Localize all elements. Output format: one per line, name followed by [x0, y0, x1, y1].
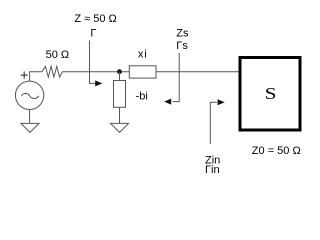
wire: source bottom to ground: [29, 110, 31, 124]
wire: resistor to series element: [63, 71, 130, 73]
node junction dot: [117, 69, 122, 74]
shunt element -bi (rectangle): [114, 81, 126, 108]
svg-text:Γ: Γ: [90, 28, 96, 40]
wire: shunt element to ground: [119, 107, 121, 123]
two-port network block S: [240, 58, 300, 131]
wire: series element to S block: [156, 71, 239, 73]
svg-text:Γs: Γs: [176, 40, 188, 52]
wire: junction down to shunt element: [119, 72, 121, 81]
voltage source V1: [15, 81, 43, 109]
series element xi (rectangle): [129, 66, 156, 78]
resistor 50 Ω (source impedance): [42, 66, 63, 77]
ground (below shunt element): [111, 123, 129, 132]
reference plane indicator Zs/Γs (vertical line with left arrow): [164, 53, 179, 105]
svg-text:xi: xi: [138, 49, 148, 61]
svg-text:50 Ω: 50 Ω: [46, 49, 70, 61]
svg-text:-bi: -bi: [136, 91, 148, 103]
reference plane indicator Zin/Γin (vertical line with right arrow): [210, 99, 225, 144]
svg-text:Zs: Zs: [176, 28, 189, 40]
reference plane indicator Γ (vertical line with right arrow): [90, 41, 103, 87]
wire: source top stub: [30, 72, 42, 82]
ground (below source): [21, 123, 39, 132]
plus sign at source: [21, 72, 28, 79]
svg-text:Z ≈ 50 Ω: Z ≈ 50 Ω: [74, 13, 116, 25]
svg-text:S: S: [265, 85, 277, 103]
svg-text:Γin: Γin: [205, 164, 220, 176]
svg-text:Z0 = 50 Ω: Z0 = 50 Ω: [252, 145, 301, 157]
